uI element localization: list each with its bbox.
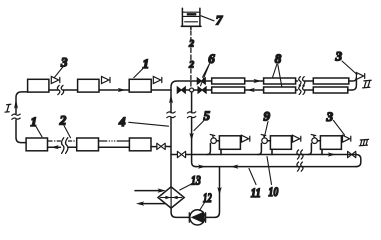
flow arrow down on V2 xyxy=(189,133,193,141)
flow arrow up on left riser xyxy=(14,99,18,109)
wire xyxy=(185,89,189,91)
return wire row2 box2-box3 xyxy=(99,146,130,148)
valve (circuit II return) xyxy=(198,87,206,93)
svg-text:8: 8 xyxy=(275,51,282,66)
wire row2 box3 to valve xyxy=(151,146,157,148)
svg-text:6: 6 xyxy=(208,51,215,66)
radiator unit 2 (circuit III) xyxy=(258,135,301,155)
wire V2 down from node xyxy=(191,92,193,155)
air vent triangle on box2 xyxy=(102,76,111,83)
right flow arrow on collector xyxy=(198,165,206,169)
svg-text:12: 12 xyxy=(203,190,212,205)
U-turn from V2 into collector xyxy=(192,155,196,167)
wire: left riser of circuit I xyxy=(16,92,28,143)
pipe break on left riser xyxy=(12,114,20,119)
pipe break upper xyxy=(299,77,305,86)
wire collector xyxy=(196,166,356,168)
svg-text:11: 11 xyxy=(251,185,261,200)
radiator unit 3 (circuit III) xyxy=(308,135,351,155)
pipe break on riser xyxy=(167,112,175,118)
svg-text:10: 10 xyxy=(268,184,278,199)
wire xyxy=(194,89,198,91)
pipe break row2 (crosses both pipes) xyxy=(62,138,68,154)
svg-text:1: 1 xyxy=(143,56,150,71)
wire + right arrow xyxy=(245,80,264,82)
internal arrows xyxy=(161,197,182,199)
radiator (row2 box1) xyxy=(26,138,47,151)
leader to label 2 xyxy=(64,126,71,138)
leader to label 11 xyxy=(249,169,256,185)
expansion tank 7 xyxy=(181,8,201,29)
leader to label 10 xyxy=(267,157,272,185)
valve (circuit I return) xyxy=(157,143,165,149)
finned heater (upper 3) xyxy=(313,78,349,84)
radiator (row2 box3) xyxy=(129,138,151,151)
svg-text:1: 1 xyxy=(31,114,38,129)
wire xyxy=(296,89,298,91)
supply header arc to circuit II xyxy=(171,81,197,90)
return wire row2 box1-box2 with left flow arrow xyxy=(48,146,61,148)
leader to label 3 (circuit II) xyxy=(342,61,357,75)
wire xyxy=(305,80,314,82)
svg-text:5: 5 xyxy=(204,108,211,123)
svg-text:7: 7 xyxy=(216,13,223,28)
wire end + air vent of circuit II xyxy=(349,78,357,82)
air vent triangle on box3 xyxy=(153,76,162,83)
pipe break on collector xyxy=(297,162,303,171)
valve (circuit II supply) xyxy=(197,78,205,84)
dash-dot supply wire row2 box2-box3 xyxy=(99,140,130,142)
radiator unit 1 (circuit III) xyxy=(207,135,250,155)
U-turn to return xyxy=(352,79,356,90)
air vent triangle on box1 xyxy=(51,76,60,83)
finned heater (lower 2) xyxy=(264,87,296,93)
label III xyxy=(359,139,368,145)
pipe break on V2 xyxy=(187,112,195,118)
valve (circuit III end) xyxy=(348,151,356,157)
leaders to label 8 xyxy=(273,65,282,87)
leader to label 13 xyxy=(180,184,192,190)
svg-text:9: 9 xyxy=(264,108,271,123)
svg-text:3: 3 xyxy=(335,49,343,64)
leader to label 4 xyxy=(129,122,169,126)
flow arrow down on drop xyxy=(217,187,221,195)
wire supply III xyxy=(171,154,357,156)
svg-text:3: 3 xyxy=(326,109,334,124)
wire: main riser xyxy=(170,90,172,187)
pipe break row1 xyxy=(57,85,63,94)
finned heater (lower 1) xyxy=(212,87,245,93)
leader to label 3 xyxy=(55,67,63,77)
leader to label 5 xyxy=(194,121,204,131)
leader to label 7 xyxy=(201,16,214,21)
wire + left arrow (return flow) xyxy=(245,89,264,91)
primary return arrow (out of HX) xyxy=(141,203,165,205)
label II xyxy=(363,80,372,88)
label I xyxy=(5,104,11,112)
right flow arrow supply III xyxy=(328,152,336,156)
svg-text:3: 3 xyxy=(60,54,68,69)
wire row1 box1-box2 xyxy=(49,89,58,91)
node circle (junction with tank pipe) xyxy=(190,88,194,92)
leader to label 12 xyxy=(200,203,205,211)
wire xyxy=(305,89,314,91)
svg-text:13: 13 xyxy=(191,172,201,187)
radiator (row2 box2) xyxy=(77,138,99,151)
wire xyxy=(206,89,212,91)
heat exchanger body xyxy=(158,187,184,208)
leader to label 1 (row1) xyxy=(134,69,143,78)
air vent triangle (circuit II end) xyxy=(356,73,364,80)
pipe break supply III xyxy=(297,150,303,159)
wire HX to pump xyxy=(171,208,189,217)
wire: drop to pump xyxy=(206,167,220,218)
valve (circuit III inlet) xyxy=(177,151,185,157)
wire xyxy=(205,80,211,82)
finned heater (lower 3) xyxy=(313,87,348,93)
svg-text:4: 4 xyxy=(118,114,126,129)
left flow arrow on collector xyxy=(230,165,238,169)
leader to label 6 (two lines) xyxy=(201,64,210,86)
finned heater (upper 2) xyxy=(264,78,296,84)
radiator (row1 box3) xyxy=(129,79,151,92)
valve (main, left of node) xyxy=(177,87,185,93)
wire row1 box2-box3 with right flow arrow xyxy=(99,89,129,91)
leader to label 1 (row2) xyxy=(36,127,42,137)
flow arrow up on riser xyxy=(169,94,173,103)
wire valve to main riser xyxy=(165,145,171,147)
wire return right xyxy=(348,89,352,91)
leader to label 9 xyxy=(265,122,269,137)
U-turn to return collector xyxy=(356,155,361,167)
radiator (row1 box2) xyxy=(78,79,99,92)
wire xyxy=(296,80,298,82)
radiator 1 (row1 box1) xyxy=(28,79,49,92)
primary supply arrow (into HX) xyxy=(135,190,160,192)
wire row1 box3 to main junction xyxy=(151,89,171,91)
finned heater (upper 1) xyxy=(212,78,245,84)
svg-text:2: 2 xyxy=(188,61,194,71)
dashed expansion pipe (net 2) xyxy=(190,31,192,86)
dash-dot supply wire row2 box1-box2 xyxy=(48,140,74,142)
leader to label 3 (circuit III) xyxy=(334,121,345,136)
svg-text:2: 2 xyxy=(59,112,67,127)
svg-text:2: 2 xyxy=(188,40,194,50)
pipe break lower xyxy=(299,86,305,95)
